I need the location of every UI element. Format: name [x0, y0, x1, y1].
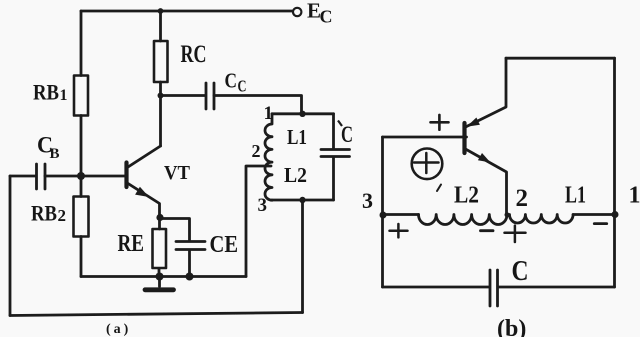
capacitor C (b)	[490, 270, 498, 306]
capacitor C tank branch	[332, 114, 335, 149]
wire bottom feedback rail	[10, 313, 303, 316]
wire bottom rail left (b)	[383, 286, 490, 289]
node CE bottom junction	[186, 273, 194, 281]
wire left column to RB1	[80, 11, 83, 76]
wire RB2 column	[80, 176, 83, 197]
svg-text:(b): (b)	[497, 316, 526, 337]
wire CB to base	[45, 175, 125, 178]
plus sign left of L2	[390, 224, 408, 237]
wire CE branch	[160, 219, 190, 241]
svg-text:3: 3	[362, 188, 373, 213]
node collector CC junction	[158, 93, 164, 99]
transistor emitter arrow (b)	[478, 153, 491, 163]
minus sign left of node 1	[594, 222, 606, 225]
svg-text:L2: L2	[284, 163, 307, 187]
transistor VT collector	[127, 146, 161, 168]
wire CC left	[161, 94, 206, 97]
wire left feedback column	[9, 176, 12, 316]
svg-text:1: 1	[60, 87, 68, 104]
svg-text:CE: CE	[210, 232, 239, 258]
node emitter junction	[156, 214, 163, 221]
wire tank bottom	[272, 199, 334, 202]
wire base rail (b)	[383, 136, 467, 139]
svg-text:C: C	[341, 122, 353, 147]
wire collector column	[159, 82, 162, 146]
svg-text:RC: RC	[181, 41, 207, 68]
wire coil rail left	[383, 213, 419, 216]
svg-text:VT: VT	[164, 162, 191, 184]
inductor L2 (b)	[419, 215, 508, 225]
wire RE bottom	[158, 269, 161, 277]
capacitor CE	[176, 242, 205, 250]
node 1 junction (b)	[612, 211, 619, 218]
wire tank top	[272, 112, 334, 115]
wire left column (b)	[381, 137, 384, 287]
wire top rail (b)	[506, 57, 615, 60]
svg-text:C: C	[238, 77, 247, 96]
wire CC to tank node 1	[214, 96, 302, 114]
svg-text:C: C	[225, 69, 238, 93]
plus sign below node 2	[505, 226, 526, 242]
svg-text:L1: L1	[565, 183, 586, 209]
svg-text:1: 1	[629, 183, 640, 209]
wire emitter to RE	[158, 218, 161, 230]
terminal EC circle	[293, 8, 301, 16]
phase source circle plus	[412, 149, 443, 180]
svg-text:(a): (a)	[106, 322, 131, 337]
wire bottom rail right (b)	[498, 286, 615, 289]
transistor collector arrow (b)	[467, 118, 480, 127]
svg-text:RB: RB	[33, 80, 59, 105]
tick before C	[338, 121, 342, 127]
wire top supply rail (a)	[81, 10, 293, 13]
svg-text:C: C	[512, 255, 529, 287]
wire CE bottom	[188, 250, 191, 277]
capacitor CC	[206, 83, 214, 109]
inductor L1 L2 coil	[265, 114, 272, 200]
wire emitter bottom rail	[81, 275, 246, 278]
minus sign right of L2	[481, 229, 494, 232]
wire node 2 tap to emitter rail	[246, 166, 271, 277]
wire RB2 to emitter rail	[80, 237, 83, 277]
node RE bottom junction	[156, 273, 164, 281]
svg-text:1: 1	[264, 103, 274, 124]
wire RB1 to base rail	[80, 116, 83, 177]
wire node 3 down	[301, 200, 304, 313]
wire base rail left segment	[10, 175, 36, 178]
svg-text:L1: L1	[287, 125, 307, 149]
node base junction	[77, 172, 85, 180]
inductor L1 (b)	[507, 215, 573, 224]
transistor VT base bar	[124, 163, 128, 188]
node 3 tank bottom junction	[299, 197, 305, 203]
svg-text:3: 3	[258, 195, 268, 216]
svg-text:RE: RE	[118, 231, 145, 257]
ground	[158, 277, 161, 287]
plus sign above base wire	[431, 115, 449, 130]
svg-text:2: 2	[516, 185, 529, 212]
wire RC top	[159, 11, 162, 41]
resistor RB2	[74, 197, 89, 237]
node 2 junction (b)	[505, 212, 510, 217]
svg-text:C: C	[320, 7, 333, 27]
resistor RB1	[74, 76, 88, 116]
svg-text:2: 2	[58, 206, 67, 225]
transistor VT emitter	[127, 183, 160, 218]
tick mark under circle	[437, 185, 441, 192]
resistor RE	[153, 229, 167, 268]
node 1 tank top junction	[299, 111, 305, 117]
svg-text:L2: L2	[454, 183, 479, 209]
transistor emitter (b)	[465, 149, 507, 215]
transistor base bar (b)	[462, 123, 466, 153]
svg-text:B: B	[50, 146, 60, 162]
transistor collector (b)	[465, 58, 507, 127]
transistor VT emitter arrow	[135, 187, 149, 197]
node 3 junction (b)	[380, 212, 387, 219]
capacitor CB	[37, 164, 46, 189]
svg-text:RB: RB	[31, 201, 57, 226]
node top rail junction	[158, 8, 164, 14]
resistor RC	[154, 41, 168, 82]
wire right column (b)	[613, 58, 616, 287]
wire coil rail right	[573, 213, 614, 216]
svg-text:2: 2	[252, 141, 261, 161]
